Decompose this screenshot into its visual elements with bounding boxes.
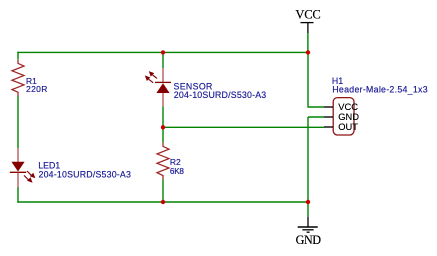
svg-text:GND: GND — [296, 233, 322, 247]
svg-text:204-10SURD/S530-A3: 204-10SURD/S530-A3 — [174, 90, 267, 100]
svg-text:VCC: VCC — [295, 8, 320, 22]
svg-text:R2: R2 — [170, 157, 181, 167]
svg-text:6K8: 6K8 — [170, 167, 185, 176]
svg-text:220R: 220R — [26, 84, 48, 94]
svg-text:OUT: OUT — [338, 121, 358, 132]
svg-text:Header-Male-2.54_1x3: Header-Male-2.54_1x3 — [332, 84, 428, 94]
svg-text:204-10SURD/S530-A3: 204-10SURD/S530-A3 — [39, 169, 132, 179]
